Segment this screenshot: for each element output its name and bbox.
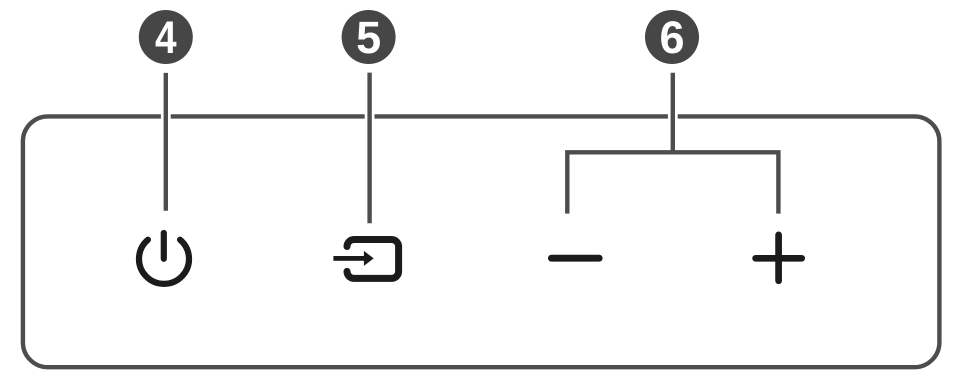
- callout circle 6: [645, 10, 699, 64]
- volume up (plus) icon: [756, 235, 802, 281]
- gap in panel border at callout 4 leader: [161, 113, 171, 119]
- power button icon: [139, 233, 189, 284]
- input/source icon: [333, 240, 398, 279]
- leader line 5: [367, 73, 371, 224]
- bracket for callout 6: [567, 152, 778, 213]
- control panel outline: [23, 116, 940, 367]
- gap in panel border at callout 6 leader: [668, 113, 678, 119]
- callout circle 5: [342, 10, 396, 64]
- gap in panel border at callout 5 leader: [365, 113, 375, 119]
- svg-text:5: 5: [356, 12, 381, 63]
- volume down (minus) icon: [551, 255, 599, 262]
- svg-text:4: 4: [155, 12, 177, 63]
- callout circle 4: [139, 10, 193, 64]
- svg-text:6: 6: [659, 12, 684, 63]
- leader line 4: [164, 73, 168, 211]
- leader line 6: [671, 73, 675, 153]
